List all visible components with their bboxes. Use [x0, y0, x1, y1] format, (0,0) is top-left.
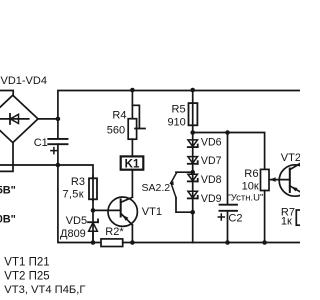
- junction bridge/plus column: [56, 117, 61, 122]
- diode VD8: [188, 174, 198, 181]
- svg-text:Д809: Д809: [60, 228, 86, 240]
- svg-text:R4: R4: [112, 110, 126, 122]
- svg-text:VT3, VT4 П4Б,Г: VT3, VT4 П4Б,Г: [4, 284, 85, 296]
- svg-text:VD9: VD9: [201, 193, 222, 205]
- svg-text:VD8: VD8: [201, 174, 222, 186]
- diode VD6: [188, 140, 198, 147]
- junction C2 branch: [225, 130, 230, 135]
- svg-text:5В": 5В": [0, 185, 16, 197]
- junction reference node: [190, 130, 195, 135]
- resistor R2* in bottom rail: [101, 239, 123, 247]
- wire AC top-left to bridge top vertex: [0, 91, 13, 96]
- svg-text:7,5к: 7,5к: [63, 189, 84, 201]
- bridge diode symbol (representative diode inside bridge): [0, 114, 29, 124]
- wire diode chain: [192, 133, 194, 243]
- wire minus rail from left edge to R3 corner: [0, 165, 93, 178]
- capacitor C2: [220, 133, 238, 243]
- svg-text:"Устн.U": "Устн.U": [227, 193, 263, 204]
- svg-text:VD6: VD6: [201, 136, 222, 148]
- switch SA2.2: [169, 172, 193, 212]
- relay K1: [121, 156, 144, 169]
- svg-text:R5: R5: [172, 104, 186, 116]
- junction R4 at top rail: [130, 88, 135, 93]
- svg-text:VD7: VD7: [201, 155, 222, 167]
- junction SA2.2 bottom: [190, 210, 195, 215]
- wire minus column down to bottom rail: [58, 165, 101, 243]
- svg-text:0В": 0В": [0, 214, 16, 226]
- wire R4 to K1: [131, 139, 133, 156]
- junction C1 minus node: [56, 163, 61, 168]
- junction base tap node: [91, 208, 96, 213]
- svg-text:C1: C1: [34, 137, 48, 149]
- wire C1 bottom to minus node: [57, 144, 59, 165]
- transistor VT2: [279, 163, 310, 196]
- svg-text:1к: 1к: [281, 216, 292, 228]
- svg-text:VT2 П25: VT2 П25: [4, 271, 49, 283]
- junction R6 at bottom rail: [262, 240, 267, 245]
- junction zener at bottom rail: [91, 240, 96, 245]
- svg-text:VT2: VT2: [281, 152, 300, 164]
- wire R3 to VD5: [92, 199, 94, 242]
- junction VT1 emitter at bottom rail: [130, 240, 135, 245]
- resistor R3 7,5k: [89, 176, 97, 201]
- wire reference node to R6 top: [193, 133, 265, 170]
- svg-text:910: 910: [167, 117, 185, 129]
- resistor R6 10k potentiometer: [261, 169, 270, 242]
- zener VD5 Д809: [88, 219, 98, 242]
- wire R5 to reference node: [192, 125, 194, 132]
- resistor R7 1k: [296, 210, 305, 225]
- R6 wiper arrow to VT2 base: [270, 177, 290, 182]
- resistor R5 910: [189, 103, 198, 125]
- wire top rail to R5: [192, 90, 194, 103]
- diode VD9: [188, 191, 198, 198]
- junction SA2.2 top: [190, 170, 195, 175]
- junction C2 at bottom rail: [225, 240, 230, 245]
- R4 tap bracket: [132, 105, 145, 128]
- wire K1 to VT1 collector: [131, 170, 133, 198]
- wire VT1 emitter to bottom rail: [131, 225, 133, 243]
- svg-text:C2: C2: [228, 212, 242, 224]
- wire bridge right vertex to plus column: [38, 118, 58, 120]
- svg-text:VT1: VT1: [142, 206, 162, 218]
- polarity plus of C2: [218, 214, 224, 220]
- diode VD7: [188, 157, 198, 164]
- polarity plus of C1: [51, 148, 57, 154]
- svg-text:10к: 10к: [242, 181, 259, 193]
- wire bottom rail right section: [123, 242, 300, 244]
- diode bridge VD1-VD4: [0, 95, 38, 142]
- svg-text:K1: K1: [125, 159, 140, 171]
- wire base tap to VT1 base: [93, 209, 121, 211]
- svg-text:R2*: R2*: [105, 226, 124, 238]
- svg-text:VD5: VD5: [66, 215, 87, 227]
- wire bridge bottom vertex down and left to winding: [0, 143, 13, 172]
- svg-text:R6: R6: [244, 168, 258, 180]
- svg-text:VD1-VD4: VD1-VD4: [1, 75, 47, 87]
- svg-text:560: 560: [107, 125, 125, 137]
- wire top rail to R4: [131, 90, 133, 119]
- svg-text:VT1 П21: VT1 П21: [4, 257, 49, 269]
- junction R5 at top rail: [190, 88, 195, 93]
- svg-text:SA2.2: SA2.2: [142, 182, 171, 194]
- capacitor C1: [48, 139, 67, 144]
- transistor VT1: [108, 197, 137, 226]
- resistor R4 560: [128, 119, 136, 140]
- wire top plus rail: [58, 91, 300, 139]
- svg-text:R3: R3: [71, 176, 85, 188]
